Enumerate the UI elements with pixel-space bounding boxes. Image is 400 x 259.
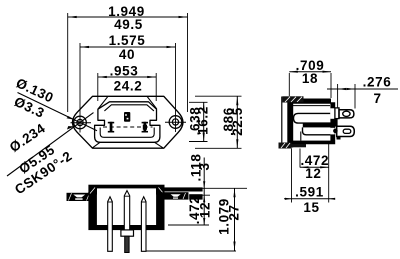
- mounting hole left (outer countersink): [74, 116, 87, 129]
- ext line left .953: [97, 73, 99, 101]
- dim line .276/7: [327, 88, 398, 90]
- ext line left .591: [291, 149, 293, 203]
- ext line top .638: [189, 101, 208, 103]
- flange outline (octagon): [73, 96, 183, 148]
- ext line top (mounting face): [185, 187, 247, 189]
- body outline side: [292, 103, 335, 144]
- lower tab hole (slot): [343, 129, 351, 133]
- step below lower tab: [337, 137, 341, 140]
- body right wall: [330, 103, 334, 144]
- ext line right shared: [328, 144, 330, 203]
- svg-text:.591: .591: [295, 185, 324, 200]
- pin N (right contact): [142, 122, 148, 133]
- svg-text:15: 15: [303, 200, 319, 215]
- svg-text:12: 12: [198, 202, 213, 218]
- body bottom edge thick: [291, 141, 335, 144]
- svg-text:.953: .953: [110, 64, 139, 79]
- terminal pocket wall: [300, 132, 302, 141]
- ext line body bottom: [168, 224, 209, 226]
- pin L (left contact): [108, 122, 114, 133]
- leader arrow lower: [67, 126, 75, 129]
- svg-text:49.5: 49.5: [114, 17, 143, 32]
- left mounting ear (section): [67, 193, 91, 201]
- wall gap lower (terminal passage): [330, 128, 335, 135]
- flange side face line: [281, 97, 283, 148]
- corner gusset left: [86, 185, 97, 195]
- pin E (earth contact): [124, 112, 130, 122]
- body top rib: [304, 99, 332, 104]
- leader line for hole dia (upper): [18, 93, 98, 131]
- dashed centerline through pins: [103, 126, 153, 128]
- svg-text:18: 18: [302, 71, 318, 86]
- pin 1 bottom view: [108, 197, 113, 252]
- ext line right 1.575 (to right hole): [175, 43, 177, 132]
- mounting hole right (outer countersink): [169, 116, 182, 129]
- corner gusset right: [156, 185, 167, 195]
- ext line flange bottom: [190, 194, 210, 196]
- svg-text:3: 3: [197, 162, 212, 170]
- dim line .638/16.2 vertical: [203, 102, 205, 141]
- right mounting ear (section): [160, 192, 189, 199]
- flange bottom foot (hatched): [279, 143, 307, 149]
- terminal bar: [303, 123, 335, 128]
- upper tab hole: [343, 111, 350, 116]
- dim line .953/24.2: [98, 76, 156, 78]
- ext line left .472 side: [299, 149, 301, 168]
- ext line right 1.949: [187, 13, 189, 112]
- upper terminal slot: [294, 113, 331, 123]
- mounting hole right (inner): [172, 119, 178, 125]
- transition edge bottom-right: [155, 142, 164, 148]
- body inner top line: [291, 105, 330, 107]
- body shell bottom view: [88, 185, 164, 230]
- ext line left 1.575 (to left hole): [79, 43, 81, 133]
- ext line right .709: [330, 73, 332, 98]
- ext line bottom .638: [189, 141, 208, 143]
- svg-text:22.5: 22.5: [230, 107, 245, 136]
- ext line right .953: [155, 73, 157, 101]
- svg-text:24.2: 24.2: [114, 79, 143, 94]
- ext line pin tips: [146, 250, 236, 252]
- dim line 1.575/40: [80, 46, 176, 48]
- ext line top .886: [195, 95, 242, 97]
- pin 2 (earth, center) bottom view: [121, 191, 134, 253]
- flange top tab (hatched): [282, 96, 303, 102]
- svg-text:.276: .276: [363, 75, 392, 90]
- svg-text:16.2: 16.2: [195, 106, 210, 135]
- right flange bar (section): [164, 187, 203, 191]
- rivet dot: [333, 129, 338, 134]
- ext line bottom .886: [195, 147, 242, 149]
- dim line .591/15: [284, 198, 335, 200]
- wall gap upper (terminal passage): [330, 108, 335, 119]
- dim line .472/12 side: [300, 166, 329, 168]
- mounting hole left (inner): [77, 119, 83, 125]
- svg-text:7: 7: [373, 91, 381, 106]
- upper tab neck: [335, 108, 339, 119]
- dim line 1.949/49.5: [68, 16, 188, 18]
- dim line .118/3 + .472/12 vertical: [203, 158, 205, 226]
- pin 3 bottom view: [141, 197, 146, 252]
- right lock bar (section): [189, 194, 202, 199]
- ext line left .276: [337, 84, 339, 108]
- flange rear wall (solid): [287, 97, 293, 148]
- svg-text:40: 40: [119, 47, 135, 62]
- svg-text:12: 12: [305, 166, 321, 181]
- inter-tab block: [334, 119, 338, 127]
- hole centerline left horizontal: [71, 122, 92, 124]
- transition edge top-left: [98, 96, 108, 109]
- lower faston tab: [337, 126, 355, 136]
- recess outer outline (stepped profile): [95, 102, 160, 143]
- dim line 1.079/27 vertical: [234, 188, 236, 250]
- leader line for csk dia (lower): [7, 113, 94, 176]
- svg-text:1.575: 1.575: [109, 33, 146, 48]
- ext line left .709: [288, 73, 290, 96]
- upper faston tab: [339, 110, 354, 118]
- leader arrow upper: [67, 116, 74, 120]
- transition edge top-right: [147, 96, 157, 109]
- recess inner face top edge: [104, 105, 153, 111]
- svg-text:27: 27: [227, 204, 242, 220]
- dim line .709/18: [289, 71, 331, 73]
- ext line right .276: [354, 84, 356, 109]
- recess inner face bottom edge: [100, 128, 154, 138]
- hole centerline right horizontal: [165, 121, 186, 123]
- ext line left 1.949: [67, 13, 69, 112]
- dim line .886/22.5 vertical: [236, 96, 238, 148]
- lower terminal slot: [303, 127, 335, 134]
- transition edge bottom-left: [92, 142, 100, 148]
